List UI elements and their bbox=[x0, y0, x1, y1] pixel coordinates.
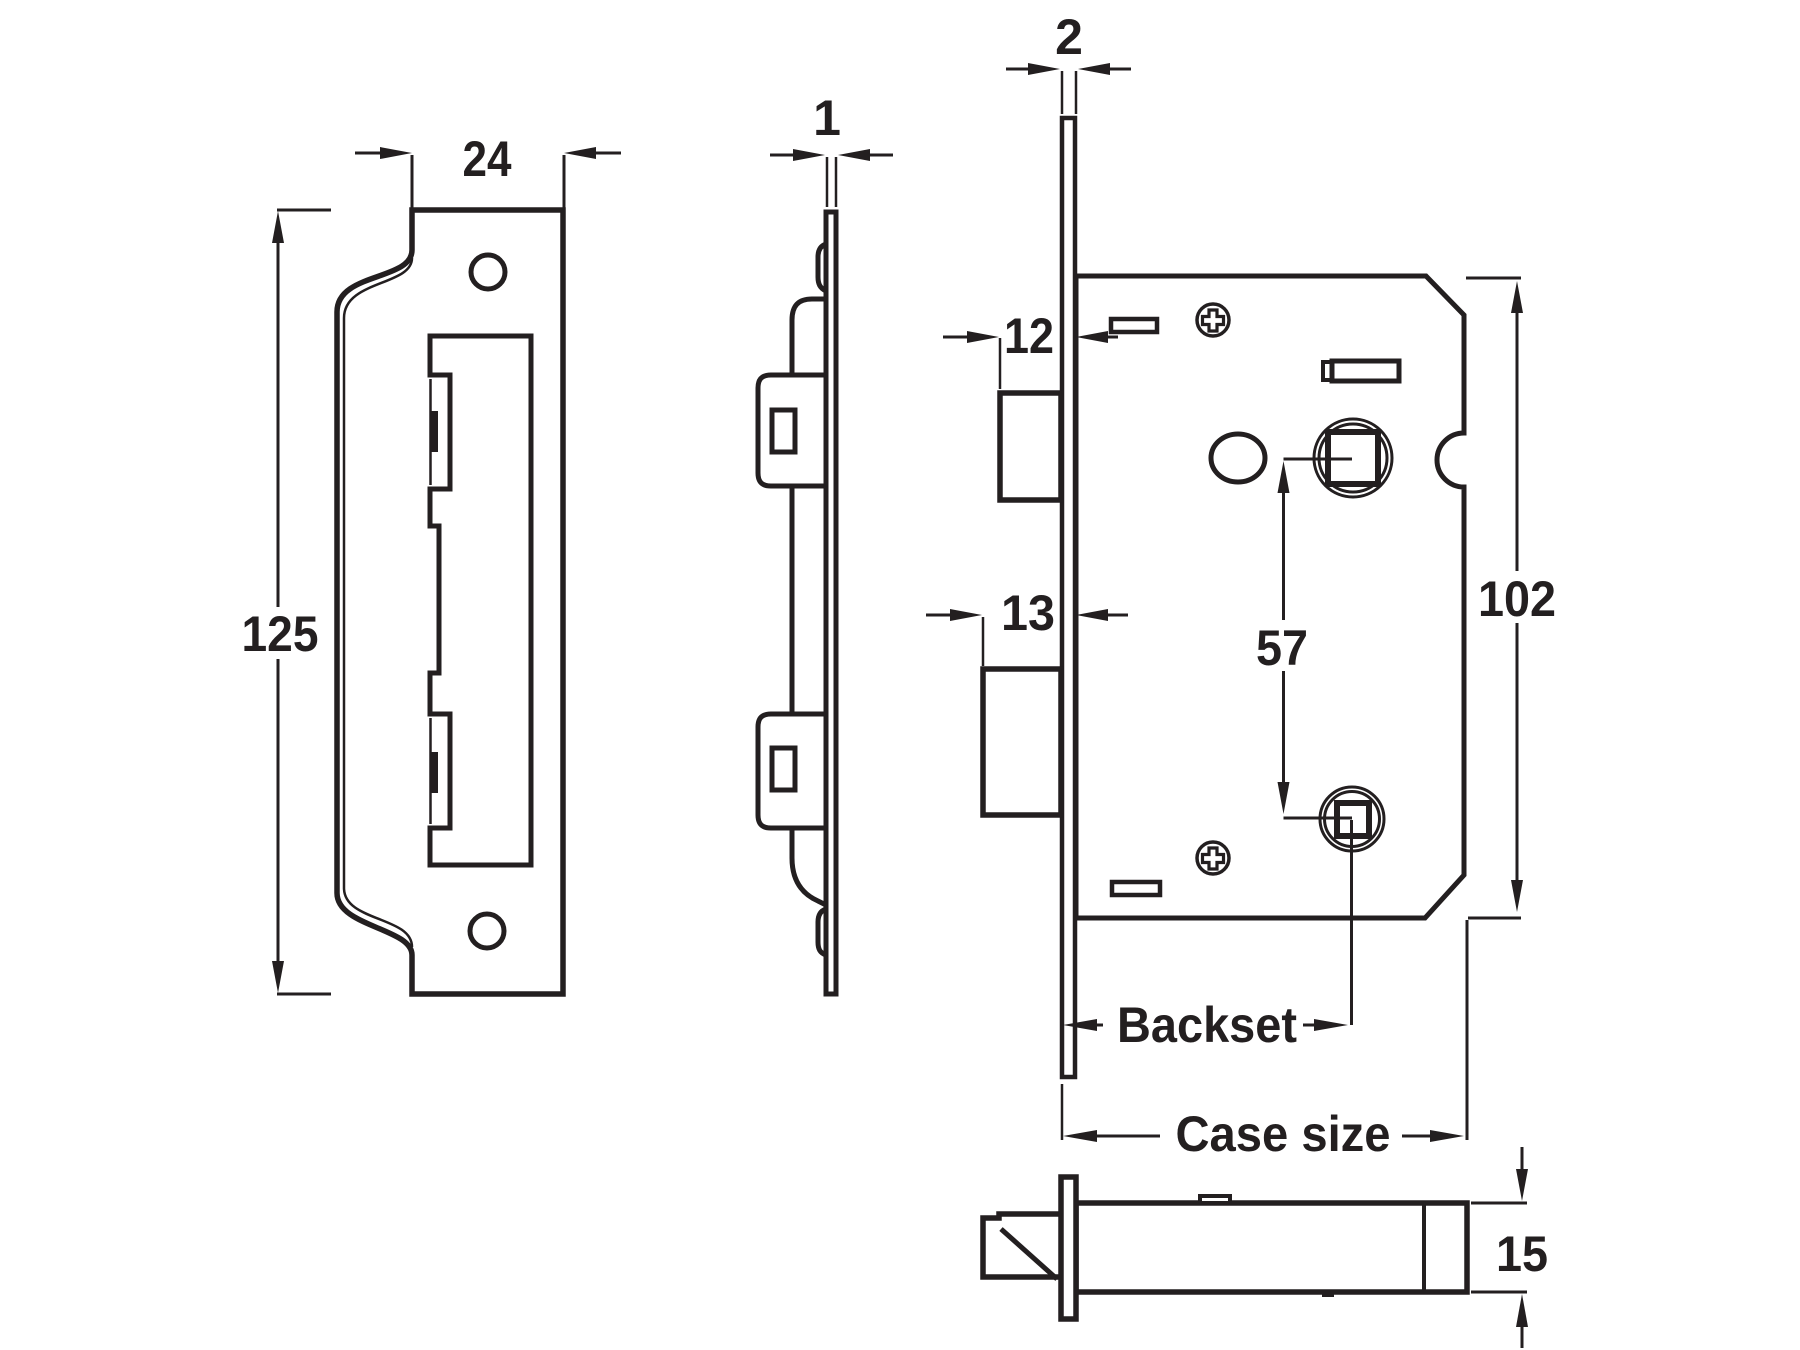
svg-text:1: 1 bbox=[813, 90, 841, 146]
dimension 13 extension line bbox=[982, 617, 985, 666]
svg-text:24: 24 bbox=[463, 131, 512, 187]
dimension 12 arrows bbox=[943, 336, 970, 339]
dimension 57 leaders bbox=[1284, 458, 1353, 461]
lower keep inner thin edge bbox=[429, 718, 432, 824]
dimension 57 line bbox=[1278, 461, 1290, 493]
case size arrows bbox=[1063, 1130, 1097, 1142]
side view lower keep hole bbox=[772, 748, 795, 790]
top follower rings bbox=[1314, 419, 1392, 497]
bottom small rectangle bbox=[1112, 882, 1160, 895]
upper keep inner thin edge bbox=[429, 379, 432, 485]
side view upper keep box bbox=[758, 375, 832, 486]
dimension 15 bbox=[1521, 1147, 1524, 1172]
lock case outline bbox=[1076, 276, 1464, 918]
lock side view faceplate bbox=[1061, 1177, 1076, 1319]
dimension 1 left arrow bbox=[770, 154, 795, 157]
bottom follower square bbox=[1337, 803, 1369, 836]
dimension 12 extension line bbox=[999, 338, 1002, 389]
side view lower keep box bbox=[758, 714, 832, 828]
svg-text:13: 13 bbox=[1001, 585, 1055, 641]
side view bottom tab bbox=[792, 828, 826, 905]
strike plate front view outer contour bbox=[337, 210, 563, 994]
strike plate side view plate bbox=[826, 212, 836, 994]
upper keep black bar bbox=[431, 411, 438, 452]
side view bottom bump bbox=[818, 909, 826, 955]
oval hole bbox=[1211, 434, 1265, 482]
lock side view bottom tick bbox=[1322, 1292, 1334, 1297]
strike plate lip fold inner line bbox=[344, 258, 412, 947]
case size extension lines bbox=[1061, 1084, 1064, 1140]
dimension 102 bbox=[1466, 277, 1521, 280]
bottom follower rings bbox=[1320, 787, 1384, 851]
backset arrows bbox=[1063, 1019, 1097, 1031]
svg-text:2: 2 bbox=[1055, 9, 1083, 65]
snib lever bbox=[1323, 362, 1332, 380]
strike plate top screw hole bbox=[471, 255, 505, 289]
svg-text:57: 57 bbox=[1256, 620, 1308, 676]
bottom screw bbox=[1197, 842, 1229, 874]
svg-text:12: 12 bbox=[1004, 308, 1054, 364]
svg-text:102: 102 bbox=[1478, 571, 1556, 627]
dimension 24 right arrow bbox=[594, 152, 621, 155]
dimension 13 arrows bbox=[926, 614, 953, 617]
dimension 1 extension lines bbox=[826, 157, 829, 207]
latch bolt side view bbox=[983, 1214, 1061, 1277]
svg-text:Backset: Backset bbox=[1117, 997, 1297, 1053]
top small rectangle bbox=[1111, 319, 1157, 332]
dimension 125 extension lines bbox=[277, 209, 331, 212]
dimension 24 extension lines bbox=[411, 155, 414, 208]
lock side view end cap line bbox=[1422, 1203, 1426, 1292]
svg-text:125: 125 bbox=[242, 606, 319, 662]
top follower square bbox=[1328, 432, 1378, 484]
strike plate bottom screw hole bbox=[470, 914, 504, 948]
top screw bbox=[1197, 304, 1229, 336]
side view middle tab edge bbox=[790, 486, 795, 714]
lock side view top tab bbox=[1200, 1196, 1230, 1203]
dead bolt front bbox=[983, 669, 1061, 815]
side view top bump bbox=[818, 244, 826, 291]
strike plate cutout bbox=[430, 336, 531, 865]
lock side view case bbox=[1076, 1203, 1467, 1292]
latch bolt front bbox=[1000, 393, 1061, 500]
dimension 2 extension lines bbox=[1061, 71, 1064, 114]
lower keep black bar bbox=[431, 752, 438, 793]
side view top tab bbox=[792, 299, 826, 375]
lock faceplate front bbox=[1062, 118, 1075, 1077]
backset leader bbox=[1350, 820, 1353, 1025]
side view upper keep hole bbox=[772, 410, 795, 452]
dimension 2 arrows bbox=[1006, 68, 1031, 71]
dimension 125 line bbox=[277, 240, 280, 607]
dimension 24 left arrow bbox=[355, 152, 382, 155]
svg-text:15: 15 bbox=[1496, 1226, 1548, 1282]
dimension 1 right arrow bbox=[868, 154, 893, 157]
svg-text:Case size: Case size bbox=[1176, 1106, 1391, 1162]
